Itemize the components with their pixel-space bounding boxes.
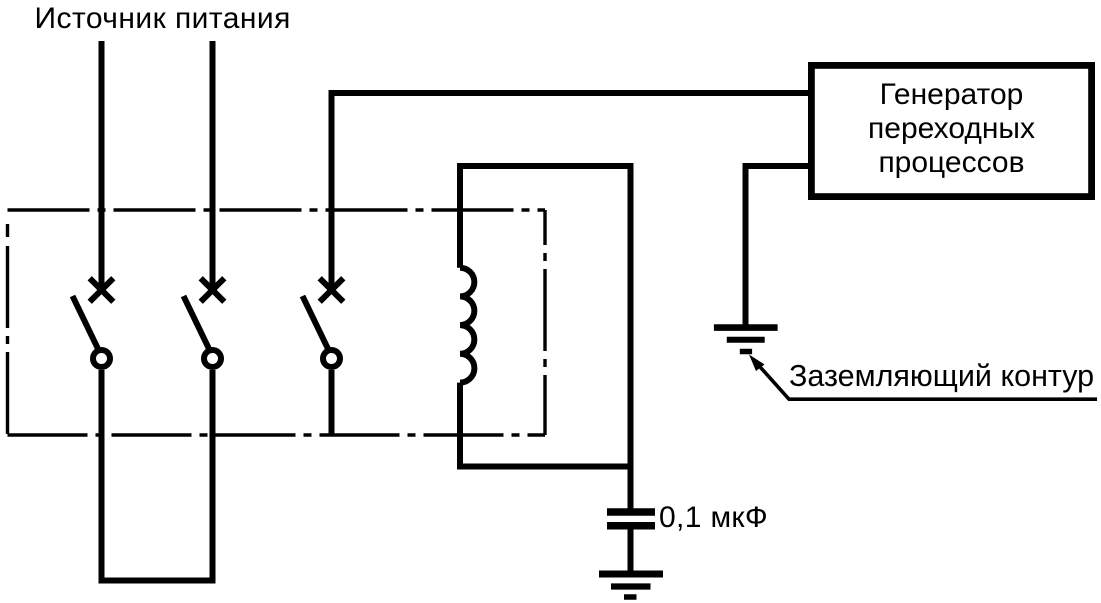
switch S3 pivot circle xyxy=(323,350,340,367)
wire: generator to earthing loop xyxy=(746,166,809,325)
leader line with arrow pointing to earthing loop xyxy=(749,355,1097,400)
switch S2 blade xyxy=(184,296,210,351)
cabinet enclosure boundary (dash-dot), right edge xyxy=(543,210,546,435)
wire: bottom jumper joining L1 and L2 xyxy=(99,578,216,584)
cabinet enclosure boundary (dash-dot), left edge lower part xyxy=(6,246,9,435)
breaker contact X of switch S1 xyxy=(90,278,114,302)
wire: phase L2 from power source xyxy=(210,41,216,290)
wire: EUT box down to capacitor xyxy=(628,466,634,509)
wire: phase L1 from power source xyxy=(99,41,105,290)
wire: below switch S3 to cabinet boundary xyxy=(329,370,335,435)
generator box (Генератор переходных процессов) xyxy=(811,65,1091,196)
breaker contact X of switch S2 xyxy=(201,278,225,302)
wire: below switch S1 xyxy=(99,370,105,584)
cabinet enclosure boundary (dash-dot), bottom edge xyxy=(8,433,546,436)
capacitor C top plate xyxy=(607,508,655,516)
wire: from generator output down to switch S3 xyxy=(332,93,809,287)
switch S1 pivot circle xyxy=(93,350,110,367)
cabinet enclosure boundary (dash-dot), top edge xyxy=(8,208,546,211)
switch S1 blade xyxy=(73,296,99,351)
ground symbol below capacitor xyxy=(599,574,663,597)
switch S3 blade xyxy=(303,296,329,351)
capacitor C bottom plate xyxy=(607,522,655,530)
svg-text:Заземляющий контур: Заземляющий контур xyxy=(789,359,1094,393)
cabinet enclosure boundary (dash-dot), left edge xyxy=(6,224,9,237)
svg-text:Источник питания: Источник питания xyxy=(35,2,291,35)
equipment-under-test box (solid rectangle, open at coil) xyxy=(460,166,631,467)
inductor L winding (4 arcs) xyxy=(460,268,474,383)
wire: capacitor to ground xyxy=(628,529,634,571)
svg-text:0,1 мкФ: 0,1 мкФ xyxy=(659,501,768,534)
switch S2 pivot circle xyxy=(204,350,221,367)
svg-text:процессов: процессов xyxy=(878,146,1024,179)
ground symbol: earthing loop xyxy=(714,328,778,352)
breaker contact X of switch S3 xyxy=(320,278,344,302)
svg-text:Генератор: Генератор xyxy=(880,78,1024,111)
svg-text:переходных: переходных xyxy=(868,112,1035,145)
wire: below switch S2 xyxy=(210,370,216,584)
